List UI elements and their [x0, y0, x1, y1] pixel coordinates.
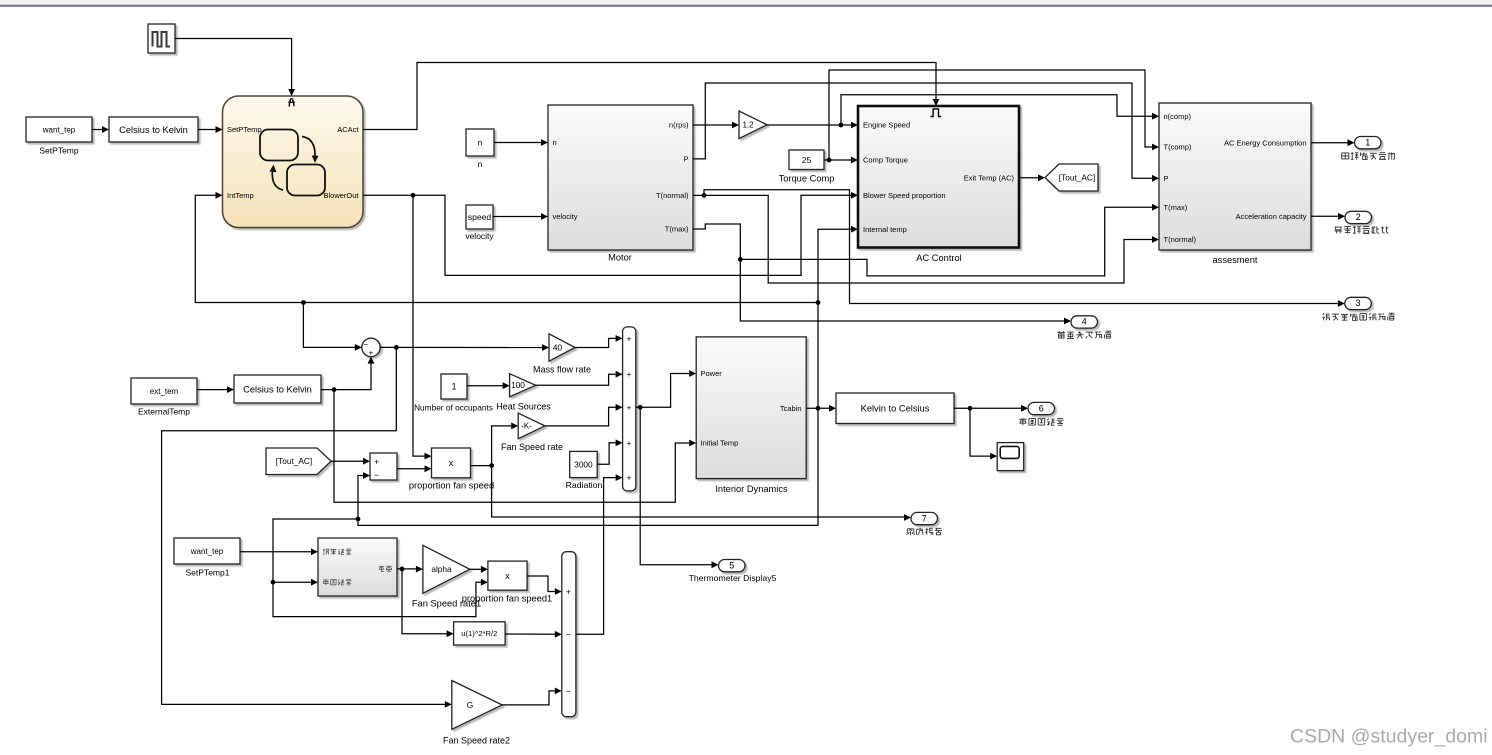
svg-text:1: 1 — [1365, 137, 1370, 147]
svg-text:x: x — [449, 458, 454, 468]
label Number of occupants — [414, 402, 493, 412]
sum junction circle (minus/plus) — [362, 338, 380, 357]
wire pulse generator to chart trigger — [175, 39, 295, 97]
label assesment — [1213, 255, 1258, 265]
wire gain 40 to add +1 — [575, 335, 623, 348]
output port 3 realtime torque — [1345, 297, 1372, 309]
AC Control port labels — [863, 121, 1014, 234]
svg-text:alpha: alpha — [431, 564, 452, 574]
svg-text:−: − — [566, 629, 571, 639]
svg-text:Celsius to Kelvin: Celsius to Kelvin — [119, 125, 188, 135]
wire ExternalTemp branch to Initial Temp — [334, 390, 696, 503]
wire assesment AC Energy Consumption to output 1 — [1311, 139, 1355, 146]
svg-text:Power: Power — [701, 369, 723, 378]
svg-text:+: + — [627, 473, 632, 483]
output port 1 AC energy ratio — [1355, 137, 1382, 149]
port label dian-liu — [379, 566, 392, 572]
svg-text:IntTemp: IntTemp — [227, 191, 254, 200]
svg-text:n: n — [478, 159, 483, 169]
svg-text:T(normal): T(normal) — [656, 191, 689, 200]
gain alpha (Fan Speed rate1) — [423, 545, 470, 593]
svg-text:ext_tem: ext_tem — [150, 387, 179, 396]
label AC Control — [916, 253, 961, 263]
svg-text:n: n — [553, 138, 557, 147]
wire T(max) branch to assesment T(max) — [740, 204, 1159, 276]
label velocity — [465, 231, 494, 241]
svg-text:6: 6 — [1039, 403, 1044, 413]
wire Motor n(rps) to gain 1.2 — [693, 122, 739, 129]
svg-text:G: G — [467, 700, 473, 710]
svg-text:+: + — [627, 369, 632, 379]
wire 1 to gain 100 — [467, 382, 510, 389]
chart port labels — [227, 125, 359, 200]
pulse generator — [148, 24, 175, 53]
wire Comp Torque branch to assesment T(comp) — [829, 70, 1159, 160]
scope block — [997, 443, 1024, 471]
svg-text:Celsius to Kelvin: Celsius to Kelvin — [243, 384, 312, 394]
watermark CSDN @studyer_domi — [1290, 725, 1488, 747]
Interior Dynamics port labels — [701, 369, 802, 448]
wire gain 1.2 to AC Engine Speed — [767, 122, 858, 129]
svg-text:velocity: velocity — [465, 231, 494, 241]
wire Celsius to Kelvin 2 to sum plus input — [321, 357, 374, 392]
wire Motor T(normal) to assesment T(normal) — [693, 193, 1159, 283]
wire product out branches — [471, 463, 495, 468]
subsystem Motor — [548, 105, 693, 250]
add block 2 (vertical bar, plus-minus-minus) — [562, 552, 576, 717]
svg-text:n(comp): n(comp) — [1164, 112, 1192, 121]
output port 6 cabin temperature — [1028, 402, 1055, 414]
label Motor — [608, 252, 632, 262]
product block proportion fan speed1 — [488, 561, 527, 590]
wire Tcabin to Kelvin to Celsius — [806, 405, 836, 412]
svg-text:assesment: assesment — [1213, 255, 1258, 265]
svg-text:T(max): T(max) — [1164, 203, 1188, 212]
label SetPTemp1 — [186, 568, 230, 578]
fcn block u(1)^2*R/2 — [454, 622, 506, 645]
label kong-tiao-hao-gong-zhan-bi — [1342, 152, 1395, 159]
wire assesment Acceleration capacity to output 2 — [1311, 213, 1345, 220]
wire Tcabin branch long feedback (IntTemp line) — [195, 192, 820, 305]
svg-text:4: 4 — [1082, 317, 1087, 327]
wire Tcabin branch to AC Internal temp — [818, 226, 858, 408]
svg-text:+: + — [627, 402, 632, 412]
subsystem Interior Dynamics — [696, 337, 806, 479]
svg-text:Initial Temp: Initial Temp — [701, 439, 739, 448]
svg-text:speed: speed — [468, 212, 491, 222]
wire branch to subsystem che-nei-wen-du — [273, 579, 318, 586]
wire want_tep1 to subsystem she-ding-wen-du — [240, 548, 318, 555]
svg-text:+: + — [566, 586, 571, 596]
wire speed to Motor velocity — [493, 213, 548, 220]
wire product branch to gain -K- — [492, 423, 519, 466]
svg-text:want_tep: want_tep — [190, 547, 224, 556]
subsystem Fan Speed rate1 — [318, 538, 397, 596]
wire Engine Speed branch to assesment n(comp) — [841, 95, 1159, 125]
svg-text:Radiation: Radiation — [566, 480, 603, 490]
gain 1.2 (Torque) — [739, 111, 767, 139]
wire gain G to add2 minus2 — [502, 688, 562, 705]
svg-text:7: 7 — [922, 513, 927, 523]
svg-text:3: 3 — [1356, 298, 1361, 308]
svg-text:Interior Dynamics: Interior Dynamics — [715, 484, 788, 494]
label proportion fan speed1 — [462, 594, 552, 604]
Stateflow chart (SetPTemp/IntTemp -> ACAct/BlowerOut) — [223, 96, 364, 228]
wire branch to scope — [970, 408, 997, 459]
svg-text:25: 25 — [802, 155, 812, 165]
AC Control trigger glyph — [931, 109, 942, 117]
Motor port labels — [553, 121, 689, 234]
subsystem AC Control — [858, 106, 1019, 248]
svg-text:Kelvin to Celsius: Kelvin to Celsius — [861, 404, 930, 414]
subsystem Kelvin to Celsius — [836, 393, 954, 424]
label Fan Speed rate1 — [412, 598, 481, 608]
wire 3000 to add +4 — [597, 439, 622, 464]
svg-text:100: 100 — [511, 380, 525, 390]
svg-text:Number of occupants: Number of occupants — [414, 402, 493, 412]
svg-text:SetPTemp: SetPTemp — [39, 146, 78, 156]
wire feedback branch to sum minus input — [303, 303, 361, 351]
svg-text:P: P — [1164, 174, 1169, 183]
gain 100 (Heat Sources) — [510, 374, 536, 397]
label shu-chu-zui-da-niu-ju — [1058, 331, 1112, 338]
label Torque Comp — [779, 174, 835, 184]
goto tag [Tout_AC] — [1045, 164, 1098, 191]
svg-text:−: − — [566, 686, 571, 696]
wire add to Interior Dynamics Power — [636, 370, 696, 410]
output port 2 spare acceleration — [1345, 211, 1372, 223]
assesment port labels — [1164, 112, 1307, 244]
svg-text:Torque Comp: Torque Comp — [779, 174, 835, 184]
label Radiation — [566, 480, 603, 490]
wire Motor T(max) to output 4 — [693, 224, 1071, 324]
svg-text:BlowerOut: BlowerOut — [323, 191, 359, 200]
svg-text:CSDN @studyer_domi: CSDN @studyer_domi — [1290, 725, 1488, 747]
wire chart BlowerOut to AC Blower Speed proportion — [363, 192, 858, 276]
constant 1 (Number of occupants) — [441, 374, 467, 399]
svg-text:Blower Speed proportion: Blower Speed proportion — [863, 191, 946, 200]
svg-text:proportion fan speed: proportion fan speed — [409, 481, 494, 491]
svg-text:−: − — [374, 470, 379, 480]
gain 40 (Mass flow rate) — [549, 334, 575, 361]
svg-text:u(1)^2*R/2: u(1)^2*R/2 — [461, 629, 497, 638]
svg-text:T(max): T(max) — [665, 225, 689, 234]
wire branch to sum2 minus input — [358, 472, 370, 519]
svg-text:T(comp): T(comp) — [1164, 143, 1192, 152]
svg-text:SetPTemp1: SetPTemp1 — [186, 568, 230, 578]
svg-text:Heat Sources: Heat Sources — [496, 401, 551, 411]
wire BlowerOut branch to product in1 — [413, 195, 432, 459]
wire AC Exit Temp to goto Tout_AC — [1019, 174, 1045, 181]
subsystem Celsius to Kelvin — [109, 117, 198, 142]
wire Kelvin to Celsius to output 6 — [954, 405, 1028, 412]
svg-text:T(normal): T(normal) — [1164, 235, 1197, 244]
svg-text:Internal temp: Internal temp — [863, 225, 907, 234]
wire Celsius to Kelvin to chart SetPTemp — [198, 126, 223, 133]
source block want_tep (SetPTemp) — [26, 117, 92, 142]
svg-text:Fan Speed rate: Fan Speed rate — [501, 442, 563, 452]
svg-text:n(rps): n(rps) — [669, 121, 689, 130]
svg-text:2: 2 — [1356, 212, 1361, 222]
svg-text:Motor: Motor — [608, 252, 632, 262]
wire n to Motor — [494, 139, 548, 146]
toolbar remnant strip — [0, 0, 1492, 7]
svg-text:P: P — [683, 155, 688, 164]
add block (vertical bar, 5 plus inputs) — [623, 327, 636, 491]
wire sum2 to product in2 — [397, 465, 432, 472]
wire product1 to add2 plus — [527, 576, 562, 595]
svg-text:+: + — [374, 456, 379, 466]
svg-text:1: 1 — [451, 382, 456, 392]
svg-text:[Tout_AC]: [Tout_AC] — [276, 456, 312, 466]
svg-text:+: + — [627, 333, 632, 343]
label n — [478, 159, 483, 169]
wire T(normal) branch to output 3 — [704, 190, 1345, 307]
svg-text:Exit Temp (AC): Exit Temp (AC) — [964, 173, 1015, 182]
source block speed (velocity) — [466, 205, 493, 229]
wire fcn to add2 minus1 — [505, 631, 562, 638]
svg-text:Comp Torque: Comp Torque — [863, 156, 908, 165]
svg-text:ACAct: ACAct — [337, 125, 359, 134]
constant 3000 (Radiation) — [570, 451, 598, 477]
svg-text:Tcabin: Tcabin — [780, 404, 802, 413]
wire add2 out to add +5 — [576, 474, 623, 634]
wire dian-liu branch to fcn u(1)^2*R/2 — [402, 569, 454, 637]
svg-text:Acceleration capacity: Acceleration capacity — [1236, 212, 1307, 221]
svg-text:velocity: velocity — [553, 212, 578, 221]
label fu-yu-jia-su-neng-li — [1335, 226, 1389, 233]
label ExternalTemp — [138, 407, 190, 417]
wire want_tep to Celsius to Kelvin — [92, 126, 109, 133]
wire gain 100 to add +2 — [536, 371, 623, 386]
source block ext_tem (ExternalTemp) — [131, 378, 197, 404]
label Mass flow rate — [533, 365, 591, 375]
output port 5 thermometer — [719, 560, 746, 572]
sum block plus-minus — [370, 453, 397, 480]
wire sum to gain 40 — [380, 344, 549, 351]
wire chart ACAct to AC Control trigger — [363, 63, 939, 130]
wire add branch to output 5 (Thermometer Display5) — [640, 407, 718, 568]
svg-text:AC Control: AC Control — [916, 253, 961, 263]
wire Motor P to assesment P — [693, 83, 1159, 182]
svg-text:40: 40 — [553, 342, 563, 352]
output port 7 fan gear — [911, 512, 938, 524]
label Thermometer Display5 — [689, 573, 777, 583]
port label che-nei-wen-du — [323, 579, 352, 585]
wire sum branch to gain G (Fan Speed rate2) — [162, 347, 452, 707]
svg-text:Thermometer Display5: Thermometer Display5 — [689, 573, 777, 583]
from tag [Tout_AC] — [266, 448, 331, 475]
subsystem assesment — [1159, 103, 1311, 250]
svg-text:[Tout_AC]: [Tout_AC] — [1059, 172, 1095, 182]
label Heat Sources — [496, 401, 551, 411]
subsystem Celsius to Kelvin 2 — [234, 375, 321, 403]
wire gain -K- to add +3 — [545, 404, 623, 426]
wire 25 to AC Comp Torque — [824, 157, 858, 164]
wire dian-liu to gain alpha — [397, 566, 423, 573]
svg-text:n: n — [478, 138, 483, 148]
svg-text:AC Energy Consumption: AC Energy Consumption — [1224, 138, 1307, 147]
wire from tag Tout_AC to sum2 plus — [331, 458, 370, 465]
constant 25 (Torque Comp) — [789, 150, 824, 170]
label proportion fan speed — [409, 481, 494, 491]
svg-text:5: 5 — [729, 560, 734, 570]
svg-text:3000: 3000 — [574, 459, 593, 469]
svg-text:SetPTemp: SetPTemp — [227, 125, 262, 134]
product block proportion fan speed — [432, 448, 471, 478]
wire Tcabin branch down to bottom section — [271, 408, 818, 616]
svg-text:-K-: -K- — [521, 422, 532, 431]
label feng-shan-dang-wei — [907, 528, 942, 535]
label SetPTemp — [39, 146, 78, 156]
source block want_tep (SetPTemp1) — [174, 538, 240, 564]
svg-text:Mass flow rate: Mass flow rate — [533, 365, 591, 375]
svg-text:+: + — [368, 348, 373, 357]
label che-xiang-nei-wen-du — [1019, 418, 1063, 425]
svg-text:+: + — [627, 438, 632, 448]
source block n — [466, 129, 494, 156]
svg-text:want_tep: want_tep — [42, 125, 76, 134]
output port 4 max torque — [1071, 316, 1098, 328]
svg-text:Fan Speed rate2: Fan Speed rate2 — [443, 736, 510, 746]
label xing-shi-xiao-hao-shi-shi-niu-ju — [1322, 313, 1395, 320]
wire gain alpha to product1 — [470, 566, 488, 573]
wire product branch to output 7 — [492, 466, 911, 521]
label Interior Dynamics — [715, 484, 788, 494]
svg-text:1.2: 1.2 — [742, 121, 754, 130]
label Fan Speed rate2 — [443, 736, 510, 746]
gain -K- (Fan Speed rate) — [518, 413, 545, 439]
svg-text:x: x — [505, 571, 510, 581]
port label she-ding-wen-du — [323, 549, 352, 555]
wire ext_tem to Celsius to Kelvin 2 — [197, 386, 234, 393]
label Fan Speed rate — [501, 442, 563, 452]
gain G (Fan Speed rate2) — [452, 681, 502, 730]
svg-text:ExternalTemp: ExternalTemp — [138, 407, 190, 417]
svg-text:Engine Speed: Engine Speed — [863, 121, 910, 130]
